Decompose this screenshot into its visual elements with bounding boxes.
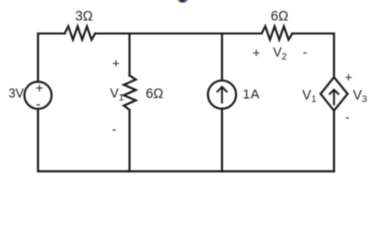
current source 1A arrow: [217, 87, 226, 103]
svg-text:-: -: [303, 45, 307, 60]
svg-text:3V: 3V: [9, 87, 25, 101]
svg-text:3Ω: 3Ω: [75, 8, 93, 23]
svg-text:+: +: [35, 80, 43, 95]
wire top-right segment: [292, 32, 334, 34]
resistor 6Ω (middle vertical zigzag): [124, 75, 136, 109]
voltage source 3V (circle): [24, 82, 51, 109]
svg-text:+: +: [345, 70, 353, 85]
cropped icon fragment at top edge: [178, 0, 188, 3]
svg-text:-: -: [36, 97, 41, 112]
wire top-middle segment: [95, 32, 261, 34]
svg-text:6Ω: 6Ω: [271, 8, 289, 23]
wire top-left segment: [38, 32, 65, 34]
svg-text:V1: V1: [110, 86, 124, 104]
svg-text:V3: V3: [353, 88, 367, 106]
wire left lower (from 3V source): [37, 109, 39, 171]
wire bottom: [38, 170, 334, 172]
dependent source V3 (diamond): [321, 77, 348, 110]
dependent source arrow: [330, 90, 339, 105]
wire middle branch lower: [128, 110, 130, 172]
svg-text:-: -: [345, 110, 349, 125]
wire right lower: [333, 111, 335, 172]
resistor 3Ω (top-left zigzag): [65, 26, 96, 39]
wire middle branch upper (node to 6Ω): [128, 34, 130, 76]
wire 1A branch upper: [221, 34, 223, 81]
svg-text:+: +: [112, 55, 120, 70]
wire right upper (to dependent source): [333, 34, 335, 78]
svg-text:+: +: [253, 45, 261, 60]
svg-text:V1: V1: [302, 88, 316, 106]
current source 1A (circle): [208, 81, 236, 109]
svg-text:1A: 1A: [243, 86, 260, 101]
resistor 6Ω (top-right zigzag): [262, 26, 293, 39]
svg-text:6Ω: 6Ω: [146, 86, 164, 101]
wire left upper (to 3V source): [37, 34, 39, 82]
wire 1A branch lower: [221, 109, 223, 172]
svg-text:-: -: [112, 121, 116, 136]
svg-text:V2: V2: [273, 45, 287, 63]
